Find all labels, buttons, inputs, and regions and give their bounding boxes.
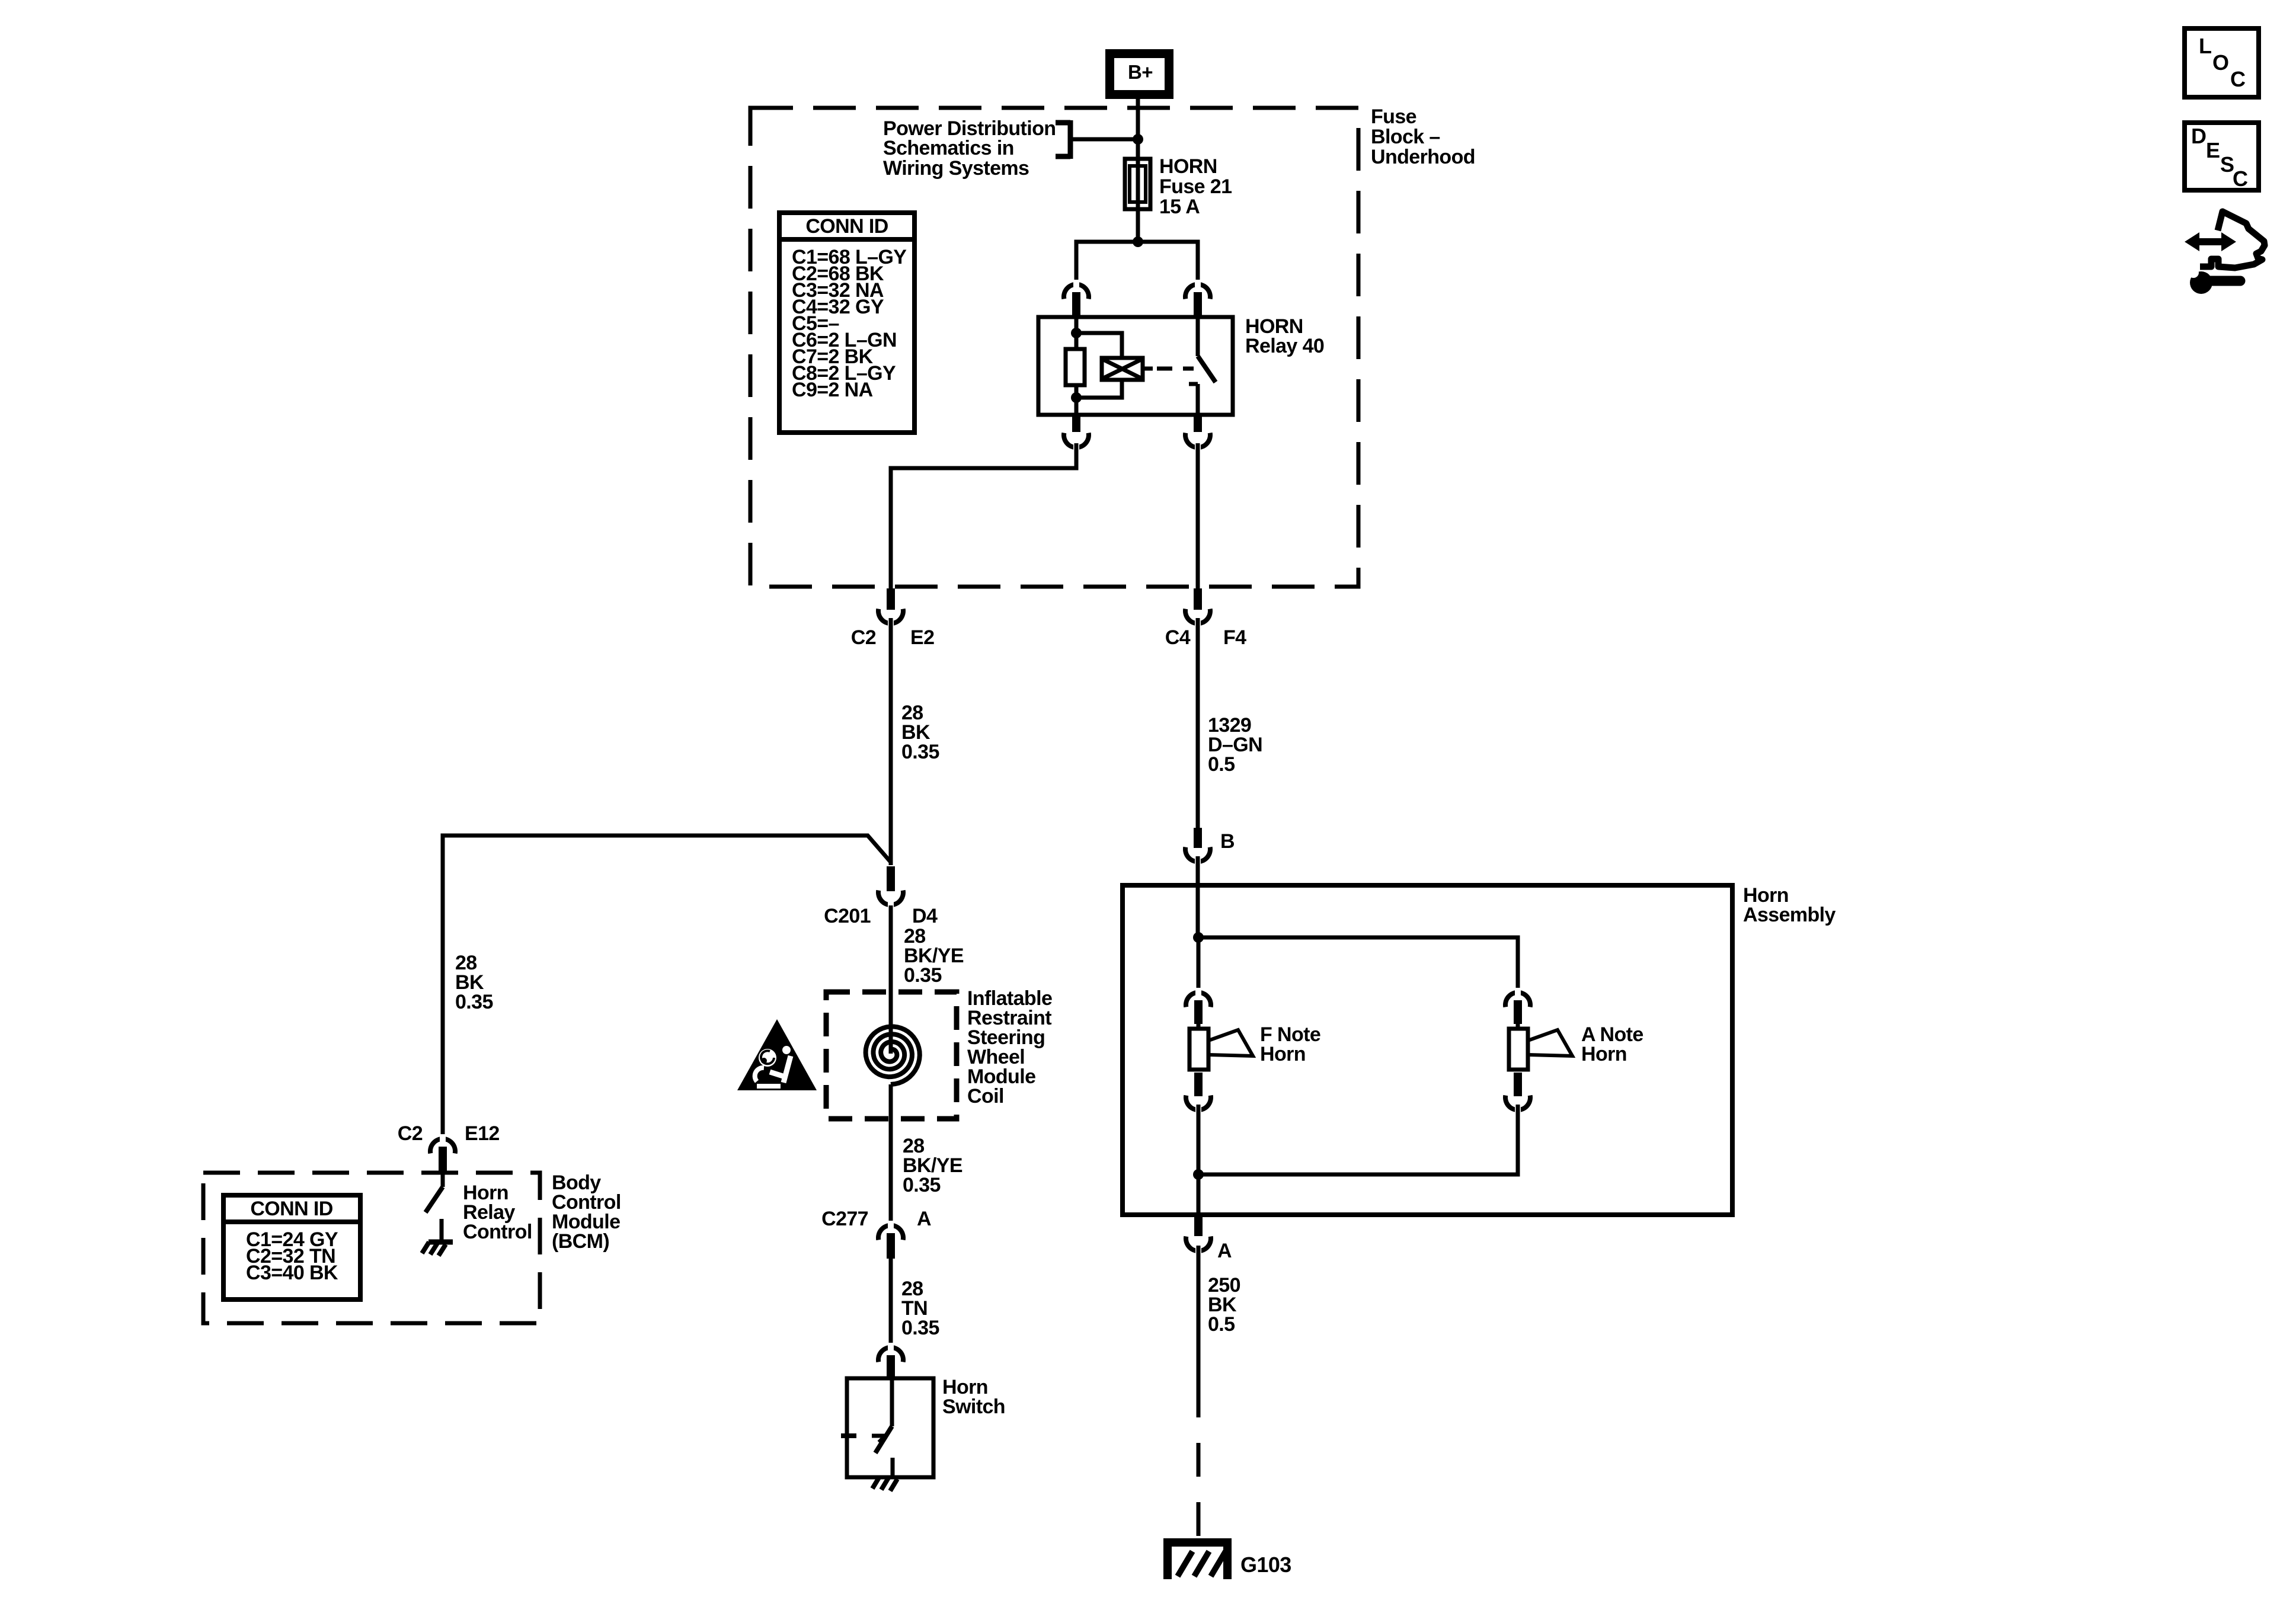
svg-text:C3=40 BK: C3=40 BK bbox=[246, 1262, 338, 1284]
connector C4 F4 fuse block output bbox=[1194, 588, 1202, 610]
svg-text:0.35: 0.35 bbox=[901, 741, 939, 763]
svg-text:0.5: 0.5 bbox=[1208, 753, 1235, 776]
svg-text:C277: C277 bbox=[821, 1208, 868, 1230]
svg-text:Control: Control bbox=[463, 1221, 532, 1243]
connector A note horn top bbox=[1505, 993, 1530, 1007]
connector B horn assembly bbox=[1194, 828, 1202, 848]
fuse HORN Fuse 21 15A bbox=[1125, 159, 1150, 209]
svg-text:D: D bbox=[2191, 124, 2206, 148]
svg-text:0.5: 0.5 bbox=[1208, 1313, 1235, 1336]
svg-text:F4: F4 bbox=[1223, 626, 1246, 649]
label HORN Fuse 21 15 A bbox=[1159, 155, 1232, 218]
BCM horn relay driver switch bbox=[426, 1173, 443, 1212]
wire branch to BCM bbox=[443, 836, 891, 1141]
label F Note Horn bbox=[1260, 1023, 1320, 1065]
DESC reference box bbox=[2185, 123, 2259, 191]
label wire 28 BK 0.35 center bbox=[901, 702, 939, 763]
svg-text:S: S bbox=[2220, 152, 2234, 177]
connector horn switch input bbox=[878, 1347, 903, 1362]
label Horn Assembly bbox=[1743, 884, 1836, 926]
warning triangle SRS bbox=[737, 1019, 817, 1090]
svg-text:Underhood: Underhood bbox=[1371, 146, 1475, 168]
horn switch box bbox=[847, 1378, 933, 1477]
BCM dashed box bbox=[203, 1173, 540, 1323]
coil dashed box inflatable restraint bbox=[826, 992, 957, 1119]
connector pin right relay output bbox=[1194, 415, 1202, 432]
CONN ID table BCM bbox=[223, 1195, 360, 1299]
label wire 1329 D-GN 0.5 bbox=[1208, 714, 1262, 776]
junction node horn return bbox=[1193, 1169, 1204, 1180]
horn switch blade bbox=[875, 1378, 892, 1453]
wire A note horn return bbox=[1198, 1105, 1518, 1174]
service icon arrow-vehicle-wrench bbox=[2185, 212, 2265, 294]
wire resistor bottom bbox=[1075, 385, 1079, 415]
svg-text:C9=2 NA: C9=2 NA bbox=[792, 379, 873, 401]
svg-text:0.35: 0.35 bbox=[901, 1317, 939, 1339]
label wire 28 TN 0.35 bbox=[901, 1278, 939, 1339]
svg-text:0.35: 0.35 bbox=[904, 964, 942, 987]
svg-text:Assembly: Assembly bbox=[1743, 904, 1836, 926]
power feed B+ terminal bbox=[1105, 49, 1173, 99]
svg-text:C2: C2 bbox=[398, 1122, 423, 1145]
svg-text:B: B bbox=[1220, 830, 1235, 853]
relay actuation dashed link bbox=[1143, 367, 1153, 371]
label Power Distribution Schematics in Wiring Systems bbox=[883, 117, 1056, 180]
relay coil winding symbol bbox=[1102, 358, 1143, 380]
svg-text:E12: E12 bbox=[465, 1122, 500, 1145]
connector A horn assembly output bbox=[1194, 1215, 1203, 1236]
wire F note horn return bbox=[1197, 1105, 1201, 1174]
reference bracket to power distribution bbox=[1056, 120, 1138, 159]
horn F note symbol bbox=[1189, 1024, 1253, 1070]
svg-text:Horn: Horn bbox=[1260, 1043, 1306, 1065]
wire 250 BK to ground bbox=[1197, 1246, 1201, 1384]
svg-text:15 A: 15 A bbox=[1159, 196, 1200, 218]
dashed ground wire bbox=[1197, 1384, 1201, 1541]
relay HORN Relay 40 box bbox=[1038, 317, 1233, 415]
connector F note horn bottom bbox=[1194, 1073, 1203, 1096]
resistor relay suppression bbox=[1066, 349, 1085, 385]
fuse block underhood dashed box bbox=[750, 108, 1358, 587]
wire horn feed split bbox=[1198, 937, 1518, 994]
label Body Control Module BCM bbox=[552, 1172, 621, 1253]
svg-text:C: C bbox=[2233, 167, 2248, 191]
junction node at B+ feed bbox=[1133, 134, 1143, 145]
connector A note horn bottom bbox=[1514, 1073, 1522, 1096]
svg-text:Horn: Horn bbox=[1581, 1043, 1627, 1065]
wire out of clockspring coil bbox=[889, 1084, 893, 1227]
svg-text:CONN ID: CONN ID bbox=[805, 215, 888, 238]
wire to F note horn bbox=[1197, 937, 1201, 994]
label Horn Switch bbox=[942, 1376, 1005, 1418]
wire B+ to fuse bbox=[1136, 99, 1140, 161]
connector pin dome left relay feed bbox=[1064, 284, 1089, 299]
svg-text:Schematics in: Schematics in bbox=[883, 137, 1014, 159]
connector C2 E12 BCM bbox=[430, 1139, 455, 1154]
horn assembly box bbox=[1123, 885, 1732, 1215]
relay coil feed wire bbox=[1075, 317, 1079, 349]
svg-text:0.35: 0.35 bbox=[455, 991, 493, 1013]
CONN ID table fuse block bbox=[779, 213, 914, 433]
horn switch fixed contact bbox=[841, 1436, 885, 1442]
svg-text:B+: B+ bbox=[1128, 61, 1153, 83]
horn A note symbol bbox=[1509, 1024, 1572, 1070]
svg-text:Coil: Coil bbox=[967, 1085, 1004, 1108]
svg-text:A: A bbox=[1217, 1240, 1232, 1262]
svg-text:0.35: 0.35 bbox=[903, 1174, 941, 1196]
connector C277 A bbox=[878, 1225, 903, 1240]
svg-text:(BCM): (BCM) bbox=[552, 1230, 609, 1253]
svg-text:C: C bbox=[2230, 67, 2246, 91]
wire horn assembly output bbox=[1197, 1174, 1201, 1215]
label Inflatable Restraint Steering Wheel Module Coil bbox=[967, 987, 1052, 1108]
svg-text:G103: G103 bbox=[1240, 1553, 1291, 1577]
svg-text:L: L bbox=[2199, 34, 2211, 58]
svg-text:HORN: HORN bbox=[1159, 155, 1217, 178]
svg-text:CONN ID: CONN ID bbox=[250, 1198, 332, 1220]
LOC reference box bbox=[2185, 28, 2259, 97]
connector pin left relay output bbox=[1072, 415, 1080, 432]
wire into clockspring coil bbox=[889, 905, 893, 1054]
label wire 28 BK 0.35 left bbox=[455, 952, 493, 1013]
svg-text:E: E bbox=[2206, 138, 2220, 162]
clockspring spiral coil bbox=[866, 1027, 920, 1085]
junction node relay coil top bbox=[1071, 328, 1082, 338]
ground G103 bbox=[1163, 1538, 1232, 1579]
ground horn switch bbox=[872, 1477, 897, 1491]
label wire 250 BK 0.5 bbox=[1208, 1274, 1240, 1336]
label Fuse Block - Underhood bbox=[1371, 105, 1475, 168]
wire relay feed bar bbox=[1076, 242, 1198, 283]
label HORN Relay 40 bbox=[1245, 315, 1324, 357]
svg-text:Block –: Block – bbox=[1371, 126, 1440, 148]
svg-text:Switch: Switch bbox=[942, 1395, 1005, 1418]
label wire 28 BK/YE 0.35 upper bbox=[904, 925, 964, 987]
svg-text:Fuse: Fuse bbox=[1371, 105, 1416, 128]
svg-text:C2: C2 bbox=[851, 626, 876, 649]
label A Note Horn bbox=[1581, 1023, 1643, 1065]
wire coil branch top bbox=[1076, 333, 1122, 358]
wire coil branch bottom bbox=[1076, 380, 1122, 398]
wire 1329 D-GN bbox=[1196, 618, 1200, 829]
svg-text:D4: D4 bbox=[912, 905, 938, 927]
svg-text:Fuse 21: Fuse 21 bbox=[1159, 175, 1232, 198]
wire 28 TN to horn switch bbox=[889, 1259, 893, 1350]
wire 28 BK from E2 bbox=[889, 618, 893, 865]
label Horn Relay Control bbox=[463, 1182, 532, 1243]
svg-text:Wiring Systems: Wiring Systems bbox=[883, 157, 1029, 180]
connector C201 D4 bbox=[887, 866, 895, 891]
label wire 28 BK/YE 0.35 lower bbox=[903, 1135, 962, 1196]
BCM driver lower contact bbox=[440, 1219, 444, 1241]
svg-text:A: A bbox=[917, 1208, 931, 1230]
relay switch contact bbox=[1189, 317, 1216, 415]
wire fuse to relay feed bar bbox=[1136, 209, 1140, 242]
wire into horn assembly bbox=[1196, 856, 1200, 937]
svg-text:E2: E2 bbox=[910, 626, 934, 649]
junction node below fuse bbox=[1133, 236, 1143, 247]
svg-text:C201: C201 bbox=[824, 905, 871, 927]
junction node relay coil bottom bbox=[1071, 392, 1082, 403]
svg-text:C4: C4 bbox=[1165, 626, 1191, 649]
wire relay switch output to C4 F4 bbox=[1196, 443, 1200, 590]
ground BCM driver bbox=[422, 1242, 453, 1256]
connector C2 E2 fuse block output bbox=[887, 588, 895, 610]
connector pin dome right relay feed bbox=[1185, 284, 1210, 299]
connector F note horn top bbox=[1186, 993, 1211, 1007]
horn switch lower contact bbox=[891, 1458, 895, 1475]
wire relay output to C2 E2 bbox=[891, 443, 1076, 590]
svg-text:Relay 40: Relay 40 bbox=[1245, 335, 1324, 357]
svg-text:O: O bbox=[2212, 50, 2228, 75]
junction node horn feed bbox=[1193, 932, 1204, 943]
